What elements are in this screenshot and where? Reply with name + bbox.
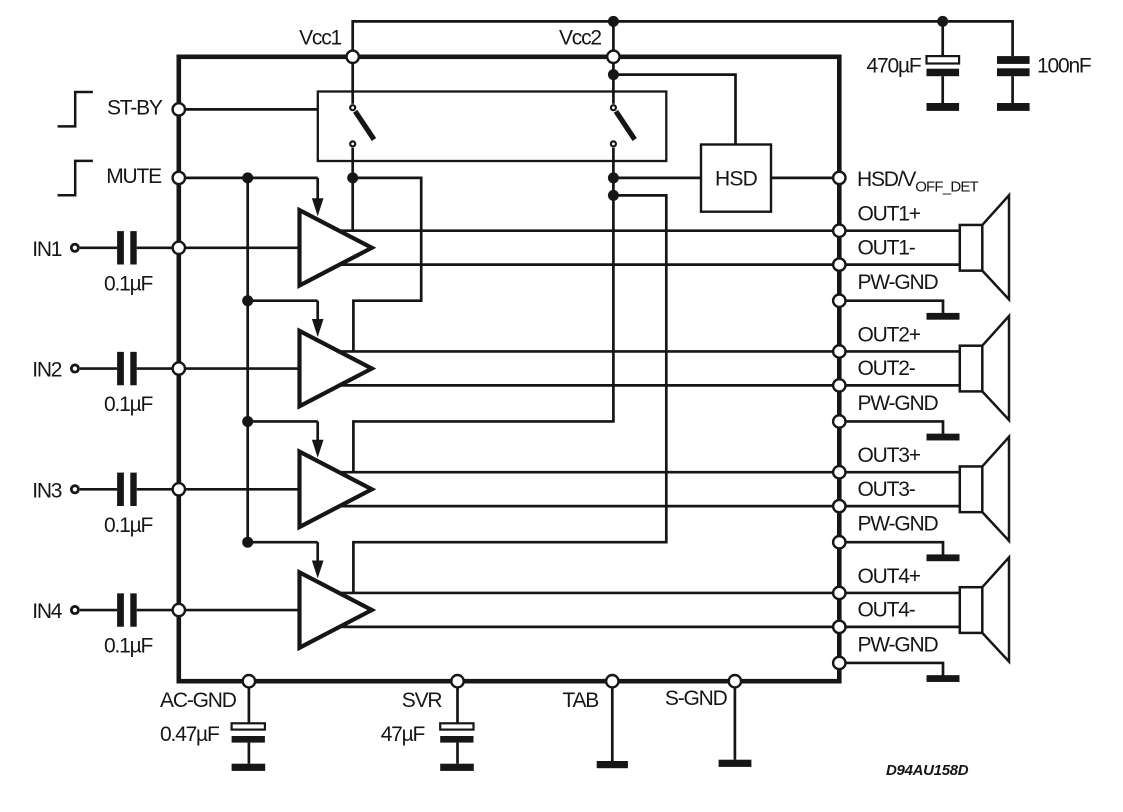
arrowhead into amp A3 — [312, 440, 324, 458]
ground PW-GND ch4 — [927, 675, 960, 682]
svg-text:100nF: 100nF — [1037, 55, 1091, 78]
step symbol MUTE — [58, 161, 93, 195]
wire mute arrow feed ch4 — [248, 541, 318, 544]
svg-text:0.1µF: 0.1µF — [104, 635, 152, 658]
pin Vcc2 — [607, 51, 619, 63]
wire PW-GND ch1 — [839, 301, 943, 314]
speaker LS3 — [960, 466, 983, 512]
node 470uF branch — [937, 16, 948, 27]
wire IN2 internal — [179, 367, 300, 370]
capacitor C3 0.1uF — [117, 473, 124, 506]
pin IN4 — [173, 604, 185, 616]
svg-text:OUT3-: OUT3- — [858, 478, 916, 501]
speaker LS1 — [960, 225, 983, 271]
node dist/MUTE junction — [242, 172, 253, 183]
pin MUTE — [173, 172, 185, 184]
pin PW-GND 2 — [833, 415, 845, 427]
svg-text:IN2: IN2 — [32, 359, 62, 382]
svg-text:D94AU158D: D94AU158D — [886, 762, 969, 779]
svg-text:IN4: IN4 — [32, 600, 63, 623]
capacitor C2 0.1uF — [117, 352, 124, 385]
svg-text:OUT2-: OUT2- — [858, 357, 916, 380]
svg-text:PW-GND: PW-GND — [858, 513, 939, 536]
capacitor C8 100nF — [997, 56, 1030, 64]
terminal IN1 — [71, 244, 78, 251]
pin Vcc1 — [347, 51, 359, 63]
wire OUT2+ — [338, 350, 960, 353]
wire mute distribution vertical — [246, 178, 249, 542]
svg-text:0.1µF: 0.1µF — [104, 272, 152, 295]
ground S-GND — [719, 760, 752, 767]
svg-text:Vcc1: Vcc1 — [299, 27, 341, 50]
svg-text:ST-BY: ST-BY — [107, 97, 163, 120]
wire HSD to pin — [771, 177, 839, 180]
svg-text:OUT3+: OUT3+ — [858, 444, 921, 467]
node SW2/HSD wire junction — [608, 172, 619, 183]
pin OUT2+ — [833, 345, 845, 357]
svg-text:OUT1-: OUT1- — [858, 236, 916, 259]
svg-text:OUT2+: OUT2+ — [858, 323, 921, 346]
svg-text:S-GND: S-GND — [665, 687, 728, 710]
capacitor C4 0.1uF — [117, 593, 124, 626]
arrowhead into amp A4 — [312, 561, 324, 579]
wire OUT3+ — [338, 471, 960, 474]
svg-text:SVR: SVR — [402, 689, 443, 712]
pin PW-GND 3 — [833, 536, 845, 548]
switch SW2 (Vcc2) — [612, 57, 615, 104]
svg-text:OUT1+: OUT1+ — [858, 203, 921, 226]
svg-text:IN1: IN1 — [32, 238, 62, 261]
svg-text:OUT4+: OUT4+ — [858, 565, 921, 588]
wire switch to HSD — [613, 177, 701, 180]
capacitor C1 0.1uF — [117, 231, 124, 264]
wire IN2 terminal to cap — [80, 367, 117, 370]
step symbol ST-BY — [58, 92, 93, 126]
switch block box — [318, 92, 667, 162]
pin ST-BY — [173, 103, 185, 115]
ground PW-GND ch1 — [927, 313, 960, 320]
wire OUT1+ — [338, 229, 960, 232]
wire cap to IN4 pin — [137, 609, 179, 612]
wire Vcc2 drop — [612, 21, 615, 56]
arrowhead into amp A1 — [312, 198, 324, 216]
wire PW-GND ch4 — [839, 663, 943, 676]
terminal IN3 — [71, 486, 78, 493]
capacitor C5 0.47uF at AC-GND — [248, 681, 251, 723]
node dist junction ch2 — [242, 295, 253, 306]
pin PW-GND 4 — [833, 657, 845, 669]
capacitor C7 470uF — [927, 56, 960, 63]
speaker LS4 — [960, 587, 983, 633]
pin IN2 — [173, 362, 185, 374]
wire mute arrow feed ch3 — [248, 420, 318, 423]
node SW1 output junction — [347, 172, 358, 183]
switch SW1 (ST-BY, Vcc1) — [351, 57, 354, 104]
svg-text:0.1µF: 0.1µF — [104, 393, 152, 416]
pin OUT3- — [833, 500, 845, 512]
wire OUT4+ — [338, 592, 960, 595]
op-amp A2 power amplifier — [300, 331, 372, 406]
wire MUTE — [179, 177, 318, 180]
wire SW1 to OUT2+ node — [353, 178, 422, 352]
wire IN3 internal — [179, 488, 300, 491]
op-amp block HSD U2 — [701, 145, 771, 212]
wire OUT3- — [339, 505, 960, 508]
ground PW-GND ch2 — [927, 434, 960, 441]
ground for C6 — [440, 764, 474, 771]
svg-text:AC-GND: AC-GND — [160, 689, 237, 712]
wire mute arrow feed ch2 — [248, 299, 318, 302]
wire SW2 to OUT3+ node — [353, 148, 613, 472]
wire IN3 terminal to cap — [80, 488, 117, 491]
terminal IN4 — [71, 606, 78, 613]
svg-text:IN3: IN3 — [32, 479, 62, 502]
svg-text:TAB: TAB — [562, 689, 598, 712]
pin PW-GND 1 — [833, 295, 845, 307]
pin IN3 — [173, 483, 185, 495]
wire OUT2- — [339, 384, 960, 387]
op-amp A1 power amplifier — [300, 210, 372, 285]
pin IN1 — [173, 242, 185, 254]
wire IN1 internal — [179, 246, 300, 249]
wire PW-GND ch2 — [839, 421, 943, 434]
svg-text:0.1µF: 0.1µF — [104, 514, 152, 537]
node SW2 second junction — [608, 190, 619, 201]
speaker LS2 — [960, 346, 983, 392]
wire TAB to ground — [611, 681, 614, 761]
pin OUT1+ — [833, 225, 845, 237]
wire OUT1- — [339, 263, 960, 266]
svg-text:PW-GND: PW-GND — [858, 633, 939, 656]
pin S-GND — [729, 675, 741, 687]
wire cap to IN2 pin — [137, 367, 179, 370]
wire ST-BY — [179, 108, 318, 111]
pin OUT3+ — [833, 466, 845, 478]
ground for C8 — [997, 103, 1030, 111]
node Vcc2 branch — [608, 16, 619, 27]
svg-text:HSD: HSD — [715, 168, 758, 191]
svg-text:Vcc2: Vcc2 — [559, 27, 601, 50]
wire SW1 to OUT1+ node — [351, 178, 354, 231]
pin OUT1- — [833, 258, 845, 270]
ground PW-GND ch3 — [927, 554, 960, 561]
ground for C7 — [927, 103, 960, 111]
node dist junction ch4 — [242, 537, 253, 548]
wire cap to IN1 pin — [137, 246, 179, 249]
wire 470uF drop — [941, 21, 944, 56]
svg-text:47µF: 47µF — [381, 723, 425, 746]
wire cap to IN3 pin — [137, 488, 179, 491]
ground for C5 — [232, 764, 266, 771]
pin TAB — [606, 675, 618, 687]
svg-text:PW-GND: PW-GND — [858, 392, 939, 415]
op-amp A4 power amplifier — [300, 572, 372, 647]
node dist junction ch3 — [242, 416, 253, 427]
wire IN1 terminal to cap — [80, 246, 117, 249]
arrowhead into amp A2 — [312, 319, 324, 337]
wire PW-GND ch3 — [839, 542, 943, 555]
pin OUT4+ — [833, 587, 845, 599]
node Vcc2/HSD junction — [608, 69, 619, 80]
terminal IN2 — [71, 365, 78, 372]
ground TAB — [597, 761, 628, 768]
svg-text:470µF: 470µF — [867, 55, 921, 78]
pin OUT2- — [833, 379, 845, 391]
wire SW2 to OUT4+ node — [353, 195, 666, 593]
wire IN4 terminal to cap — [80, 609, 117, 612]
svg-text:0.47µF: 0.47µF — [160, 723, 219, 746]
wire Vcc2 to HSD top — [613, 75, 735, 145]
wire mute arrow feed ch1 — [316, 178, 319, 201]
wire IN4 internal — [179, 609, 300, 612]
wire Vcc rail — [353, 21, 1013, 56]
pin OUT4- — [833, 621, 845, 633]
svg-text:MUTE: MUTE — [106, 165, 162, 188]
svg-text:OUT4-: OUT4- — [858, 599, 916, 622]
capacitor C6 47uF at SVR — [456, 681, 459, 723]
svg-text:PW-GND: PW-GND — [858, 271, 939, 294]
wire OUT4- — [339, 625, 960, 628]
IC body U1 — [179, 57, 840, 681]
pin AC-GND — [243, 675, 255, 687]
op-amp A3 power amplifier — [300, 452, 372, 527]
pin SVR — [451, 675, 463, 687]
wire S-GND to ground — [734, 681, 737, 760]
pin HSD/V_OFF_DET — [833, 172, 845, 184]
